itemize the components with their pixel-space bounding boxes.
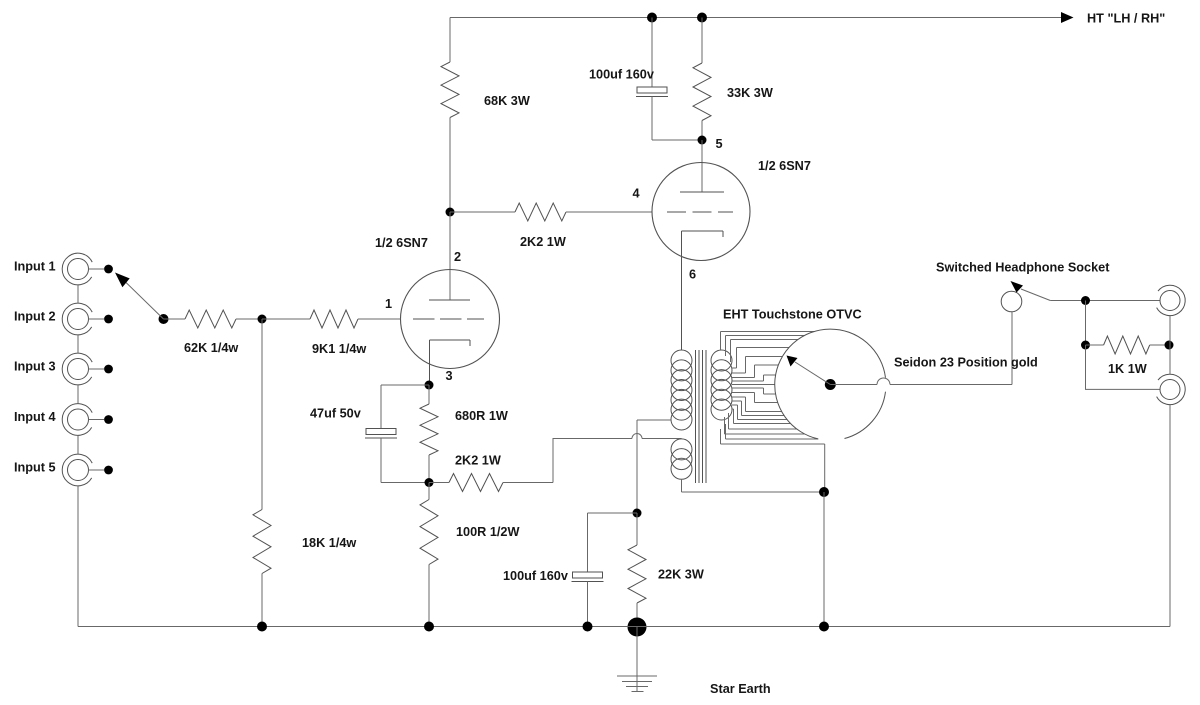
svg-text:6: 6 [689, 268, 696, 282]
svg-text:22K 3W: 22K 3W [658, 568, 704, 582]
svg-text:2K2 1W: 2K2 1W [520, 235, 566, 249]
svg-text:1K 1W: 1K 1W [1108, 362, 1147, 376]
svg-text:47uf 50v: 47uf 50v [310, 407, 361, 421]
svg-text:680R 1W: 680R 1W [455, 409, 508, 423]
svg-text:Input 5: Input 5 [14, 461, 56, 475]
svg-text:33K 3W: 33K 3W [727, 86, 773, 100]
svg-text:100R 1/2W: 100R 1/2W [456, 525, 519, 539]
svg-text:Input 3: Input 3 [14, 360, 56, 374]
svg-text:5: 5 [716, 137, 723, 151]
svg-text:Switched Headphone Socket: Switched Headphone Socket [936, 261, 1110, 275]
svg-text:2: 2 [454, 250, 461, 264]
svg-text:Input 1: Input 1 [14, 260, 56, 274]
svg-text:3: 3 [446, 369, 453, 383]
svg-text:100uf 160v: 100uf 160v [589, 68, 654, 82]
svg-text:Star Earth: Star Earth [710, 682, 771, 696]
svg-text:18K 1/4w: 18K 1/4w [302, 536, 356, 550]
svg-text:2K2 1W: 2K2 1W [455, 454, 501, 468]
svg-text:HT "LH / RH": HT "LH / RH" [1087, 12, 1165, 26]
svg-text:9K1 1/4w: 9K1 1/4w [312, 342, 366, 356]
svg-text:Seidon 23 Position gold: Seidon 23 Position gold [894, 356, 1038, 370]
svg-text:62K 1/4w: 62K 1/4w [184, 341, 238, 355]
svg-text:4: 4 [633, 187, 640, 201]
svg-text:1: 1 [385, 297, 392, 311]
svg-text:68K 3W: 68K 3W [484, 94, 530, 108]
svg-text:Input 4: Input 4 [14, 410, 56, 424]
svg-text:1/2 6SN7: 1/2 6SN7 [375, 236, 428, 250]
svg-text:Input 2: Input 2 [14, 310, 56, 324]
svg-text:100uf 160v: 100uf 160v [503, 569, 568, 583]
svg-text:EHT Touchstone OTVC: EHT Touchstone OTVC [723, 308, 862, 322]
svg-text:1/2 6SN7: 1/2 6SN7 [758, 159, 811, 173]
